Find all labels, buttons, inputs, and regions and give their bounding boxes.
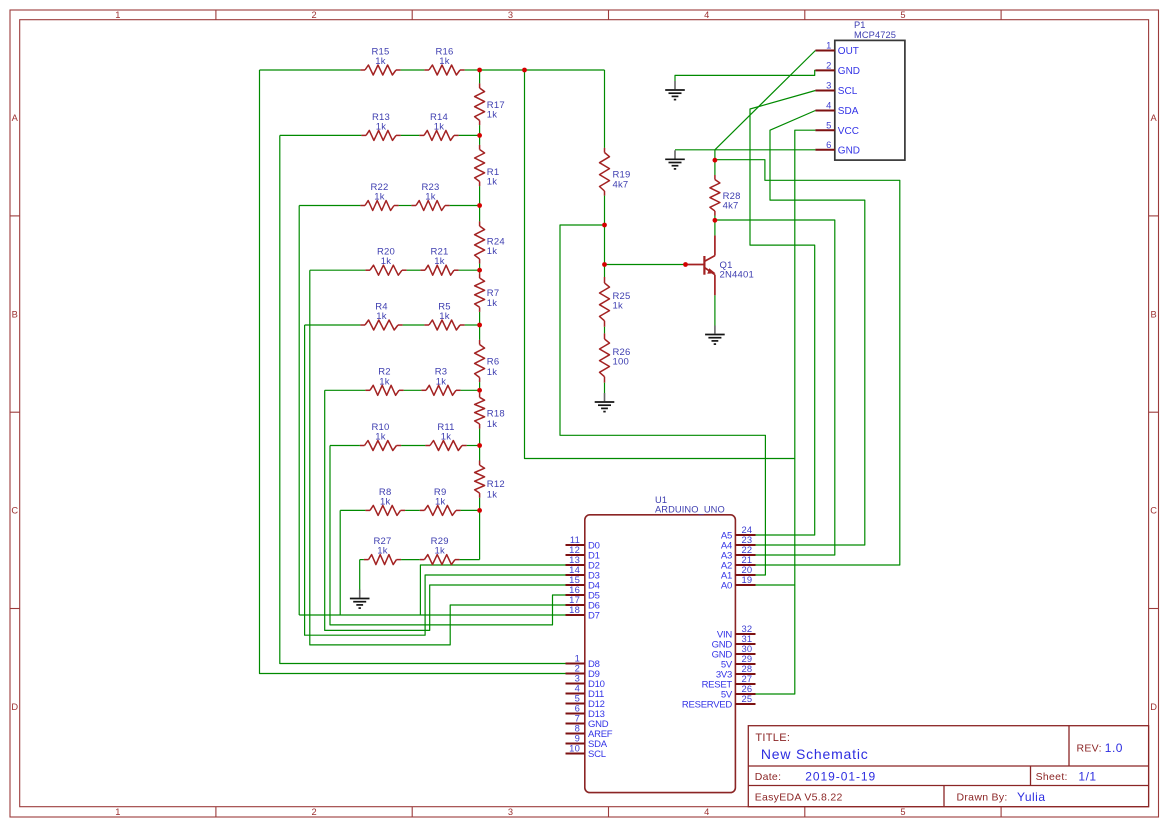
wire node to base node: [604, 225, 606, 265]
svg-text:3: 3: [826, 80, 831, 91]
junction node row 5: [477, 323, 482, 328]
resistor R14 1k: [419, 112, 458, 141]
svg-text:1k: 1k: [380, 496, 390, 507]
svg-text:10: 10: [569, 743, 580, 754]
wire row 9 left: [360, 559, 364, 561]
U1 pin 10 SCL: [566, 743, 606, 760]
svg-text:VCC: VCC: [838, 126, 859, 137]
wire corner to U1 D2: [420, 565, 565, 615]
svg-text:MCP4725: MCP4725: [854, 30, 896, 40]
svg-text:1k: 1k: [487, 419, 497, 430]
svg-text:EasyEDA V5.8.22: EasyEDA V5.8.22: [755, 792, 843, 804]
U1 pin 28 3V3: [716, 663, 756, 680]
wire row 6 left: [325, 389, 366, 391]
svg-text:RESERVED: RESERVED: [682, 700, 732, 711]
svg-text:Yulia: Yulia: [1017, 790, 1046, 804]
resistor R28 4k7: [710, 175, 741, 216]
wire row 6 to D4: [325, 390, 566, 630]
svg-text:2019-01-19: 2019-01-19: [805, 769, 876, 783]
svg-text:D: D: [1150, 702, 1157, 712]
P1 pin 4 SDA: [815, 100, 858, 118]
wire row 2 to D8: [280, 135, 566, 663]
resistor R17 1k: [475, 83, 505, 125]
U1 pin 19 A0: [721, 574, 756, 591]
svg-text:A0: A0: [721, 581, 732, 592]
svg-text:4: 4: [704, 10, 709, 20]
svg-text:New Schematic: New Schematic: [761, 746, 869, 762]
wire ladder column segment: [479, 446, 481, 461]
junction node row 3: [477, 203, 482, 208]
wire ladder column segment: [479, 498, 481, 511]
U1 pin 16 D5: [566, 584, 600, 601]
svg-text:4k7: 4k7: [613, 179, 629, 190]
junction node row 7: [477, 443, 482, 448]
svg-text:A: A: [1150, 113, 1157, 123]
U1 pin 30 GND: [712, 643, 756, 660]
resistor R11 1k: [425, 422, 466, 451]
U1 pin 8 AREF: [566, 723, 613, 740]
svg-text:1k: 1k: [374, 192, 384, 203]
wire ladder column segment: [479, 186, 481, 205]
U1 pin 29 5V: [721, 653, 756, 670]
svg-text:1k: 1k: [487, 298, 497, 309]
ground at Q1 emitter: [705, 326, 725, 345]
wire row 4 middle: [407, 269, 421, 271]
wire P1 SDA to A4: [756, 111, 865, 546]
wire row 9 right: [460, 559, 480, 561]
wire row 1 middle: [401, 69, 425, 71]
wire R25-R26: [604, 327, 606, 334]
wire row 2 left: [280, 134, 362, 136]
resistor R21 1k: [420, 247, 458, 276]
U1 pin 7 GND: [566, 713, 609, 730]
U1 pin 22 A3: [721, 544, 756, 561]
resistor R24 1k: [475, 221, 505, 263]
wire row 3 middle: [399, 205, 412, 207]
svg-text:GND: GND: [838, 146, 860, 157]
wire ladder column segment: [479, 390, 481, 392]
svg-text:1k: 1k: [381, 256, 391, 267]
wire row 8 to D7: [339, 510, 341, 615]
wire R27 to ground: [359, 560, 361, 590]
svg-text:ARDUINO_UNO: ARDUINO_UNO: [655, 505, 725, 515]
resistor R8 1k: [365, 487, 405, 516]
U1 pin 11 D0: [566, 534, 600, 551]
wire row 5 right: [465, 324, 480, 326]
svg-text:100: 100: [613, 357, 629, 368]
resistor R6 1k: [475, 340, 500, 382]
svg-text:5: 5: [826, 119, 831, 130]
svg-text:1k: 1k: [436, 376, 446, 387]
svg-text:R12: R12: [487, 479, 505, 490]
U1 pin 2 D9: [566, 663, 600, 680]
svg-text:1k: 1k: [435, 496, 445, 507]
junction node row 2: [477, 133, 482, 138]
resistor R2 1k: [365, 367, 403, 396]
svg-text:1: 1: [115, 10, 120, 20]
wire ladder column to R29 row: [479, 510, 481, 559]
svg-text:GND: GND: [838, 66, 860, 77]
wire R26 to ground: [604, 383, 606, 393]
wire A1 net: [560, 225, 765, 575]
svg-text:C: C: [11, 506, 18, 516]
svg-text:U1: U1: [655, 495, 667, 505]
wire ladder column segment: [479, 325, 481, 340]
wire OUT to R28 node: [714, 150, 716, 160]
svg-text:1k: 1k: [376, 121, 386, 132]
wire row 7 left: [330, 445, 360, 447]
svg-text:19: 19: [742, 574, 753, 585]
wire P1 VCC rail: [756, 130, 816, 694]
U1 pin 18 D7: [566, 604, 600, 621]
U1 pin 4 D11: [566, 683, 604, 700]
svg-text:R6: R6: [487, 357, 500, 368]
wire row 6 middle: [404, 389, 422, 391]
ground at P1 GND6: [665, 150, 685, 169]
wire row 2 right: [459, 134, 480, 136]
wire row 8 left: [340, 509, 365, 511]
wire row 8 right: [461, 509, 480, 511]
svg-text:B: B: [1150, 309, 1156, 319]
svg-text:1/1: 1/1: [1078, 769, 1096, 783]
resistor R15 1k: [360, 46, 400, 75]
U1 pin 21 A2: [721, 554, 756, 571]
P1 pin 5 VCC: [815, 119, 859, 137]
resistor R26 100: [600, 333, 631, 382]
svg-text:1.0: 1.0: [1105, 741, 1123, 755]
wire ladder column segment: [479, 125, 481, 135]
U1 pin 3 D10: [566, 673, 605, 690]
resistor R3 1k: [421, 367, 460, 396]
svg-text:Date:: Date:: [755, 771, 782, 783]
junction node row 1: [477, 68, 482, 73]
resistor R9 1k: [420, 487, 461, 516]
wire ladder column segment: [479, 382, 481, 390]
resistor R19 4k7: [600, 148, 631, 196]
U1 pin 23 A4: [721, 534, 756, 551]
wire row 3 left: [299, 205, 360, 207]
wire R28 node to A2: [715, 160, 900, 565]
svg-text:1k: 1k: [487, 367, 497, 378]
wire row 7 to D5: [330, 446, 566, 625]
svg-text:R18: R18: [487, 409, 505, 420]
svg-text:1k: 1k: [434, 121, 444, 132]
svg-text:4: 4: [826, 100, 831, 111]
resistor R12 1k: [475, 461, 505, 501]
resistor R13 1k: [361, 112, 400, 141]
wire R28 bottom: [714, 216, 716, 221]
svg-text:D: D: [11, 702, 18, 712]
U1 pin 5 D12: [566, 693, 605, 710]
resistor R22 1k: [360, 182, 398, 211]
junction node row 6: [477, 388, 482, 393]
svg-text:25: 25: [742, 693, 753, 704]
resistor R16 1k: [424, 46, 464, 75]
U1 pin 1 D8: [566, 653, 600, 670]
svg-text:TITLE:: TITLE:: [755, 732, 790, 744]
wire row 1 left: [260, 69, 361, 71]
U1 pin 6 D13: [566, 703, 605, 720]
U1 pin 14 D3: [566, 564, 600, 581]
svg-text:3: 3: [508, 807, 513, 817]
wire row 8 middle: [405, 509, 420, 511]
wire ladder column segment: [479, 206, 481, 222]
svg-text:REV:: REV:: [1077, 743, 1102, 755]
wire ladder column segment: [479, 429, 481, 446]
svg-text:1k: 1k: [376, 311, 386, 322]
wire 5V riser: [525, 70, 795, 459]
svg-text:1k: 1k: [434, 546, 444, 557]
P1 pin 1 OUT: [815, 40, 859, 58]
wire ladder column segment: [479, 70, 481, 83]
wire base node to Q1: [605, 264, 686, 266]
title block frame: [748, 726, 1148, 807]
wire top row to R19 column: [480, 69, 605, 71]
svg-text:2: 2: [312, 807, 317, 817]
U1 pin 12 D1: [566, 544, 600, 561]
wire row 1 right: [465, 69, 480, 71]
resistor R18 1k: [475, 393, 505, 430]
svg-text:SDA: SDA: [838, 106, 859, 117]
U1 pin 9 SDA: [566, 733, 608, 750]
P1 pin 2 GND: [815, 60, 860, 78]
svg-text:4: 4: [704, 807, 709, 817]
wire row 6 right: [461, 389, 480, 391]
resistor R20 1k: [365, 247, 406, 276]
svg-text:1k: 1k: [434, 256, 444, 267]
wire row 1 to D9: [260, 70, 566, 674]
wire to U1 D7: [299, 614, 565, 616]
svg-text:2: 2: [312, 10, 317, 20]
connector P1 box: [835, 40, 905, 160]
svg-text:1k: 1k: [379, 376, 389, 387]
junction node Q1 base: [683, 262, 688, 267]
resistor R5 1k: [424, 301, 464, 330]
svg-text:A: A: [12, 113, 19, 123]
wire row 9 middle: [401, 559, 420, 561]
junction node row 8: [477, 508, 482, 513]
svg-text:1k: 1k: [487, 177, 497, 188]
resistor R7 1k: [475, 273, 500, 312]
wire row 4 right: [459, 269, 480, 271]
svg-text:1k: 1k: [613, 301, 623, 312]
svg-text:1k: 1k: [441, 432, 451, 443]
U1 pin 32 VIN: [717, 623, 756, 640]
ground at P1 GND2: [665, 81, 685, 100]
junction node row 4: [477, 268, 482, 273]
svg-text:5: 5: [900, 10, 905, 20]
junction node R19/A1: [602, 223, 607, 228]
svg-text:1: 1: [826, 40, 831, 51]
wire ladder column segment: [479, 135, 481, 145]
svg-text:SCL: SCL: [588, 749, 606, 760]
svg-text:D7: D7: [588, 611, 600, 622]
resistor R25 1k: [600, 277, 631, 327]
svg-text:C: C: [1150, 506, 1157, 516]
wire Q1 emitter to ground: [714, 295, 716, 325]
wire row 3 to D2: [298, 206, 300, 616]
wire row 7 middle: [401, 445, 425, 447]
wire R28 top lead: [714, 160, 716, 175]
svg-text:OUT: OUT: [838, 46, 859, 57]
junction node top ladder: [522, 68, 527, 73]
svg-text:1k: 1k: [375, 56, 385, 67]
wire collector to A3: [715, 220, 835, 555]
P1 pin 6 GND: [815, 139, 860, 157]
svg-text:2: 2: [826, 60, 831, 71]
wire ladder column segment: [479, 270, 481, 273]
U1 pin 24 A5: [721, 524, 756, 541]
wire P1 OUT diagonal: [715, 51, 816, 150]
wire A0 to 5V rail: [756, 584, 795, 586]
P1 pin 3 SCL: [815, 80, 857, 98]
resistor R23 1k: [411, 182, 449, 211]
U1 pin 20 A1: [721, 564, 756, 581]
svg-text:3: 3: [508, 10, 513, 20]
resistor R10 1k: [360, 422, 401, 451]
ground at R27: [350, 590, 370, 609]
junction node R28 top: [713, 158, 718, 163]
mcu U1 box: [585, 515, 736, 793]
resistor R29 1k: [420, 536, 460, 565]
junction node collector: [713, 218, 718, 223]
wire row 5 left: [305, 324, 361, 326]
svg-text:1k: 1k: [375, 432, 385, 443]
svg-text:1k: 1k: [425, 192, 435, 203]
svg-text:6: 6: [826, 139, 831, 150]
svg-text:1k: 1k: [439, 311, 449, 322]
svg-text:1k: 1k: [439, 56, 449, 67]
svg-text:SCL: SCL: [838, 86, 858, 97]
svg-text:18: 18: [569, 604, 580, 615]
wire ladder column segment: [479, 312, 481, 325]
wire row 7 right: [467, 445, 480, 447]
svg-text:1: 1: [115, 807, 120, 817]
svg-text:1k: 1k: [487, 110, 497, 121]
resistor R1 1k: [475, 145, 500, 188]
svg-text:1k: 1k: [377, 546, 387, 557]
wire row 4 to D6: [310, 270, 566, 645]
U1 pin 27 RESET: [702, 673, 756, 690]
wire row 2 middle: [401, 134, 420, 136]
svg-text:2N4401: 2N4401: [720, 269, 754, 280]
svg-text:Sheet:: Sheet:: [1036, 771, 1068, 783]
wire row 4 left: [310, 269, 366, 271]
U1 pin 26 5V: [721, 683, 756, 700]
svg-text:4k7: 4k7: [723, 200, 739, 211]
wire R25 top: [604, 265, 606, 278]
U1 pin 17 D6: [566, 594, 600, 611]
wire Q1 collector: [714, 220, 716, 235]
U1 pin 25 RESERVED: [682, 693, 756, 710]
U1 pin 13 D2: [566, 554, 600, 571]
wire P1 GND6: [675, 149, 815, 151]
wire R19 top: [604, 70, 606, 148]
wire P1 SCL to A5: [750, 91, 815, 536]
svg-text:P1: P1: [854, 20, 866, 30]
wire row 5 to D3: [305, 325, 566, 635]
svg-text:1k: 1k: [487, 490, 497, 501]
wire row 5 middle: [403, 324, 425, 326]
ground at R26: [595, 393, 615, 412]
junction node base: [602, 262, 607, 267]
resistor R4 1k: [360, 301, 402, 330]
wire ladder column segment: [479, 264, 481, 271]
wire row 3 right: [450, 205, 480, 207]
svg-text:5: 5: [900, 807, 905, 817]
svg-text:B: B: [12, 309, 18, 319]
svg-text:1k: 1k: [487, 246, 497, 257]
resistor R27 1k: [364, 536, 401, 565]
svg-text:Drawn By:: Drawn By:: [957, 792, 1008, 804]
wire R19 bottom to node: [604, 196, 606, 225]
U1 pin 15 D4: [566, 574, 600, 591]
transistor Q1 2N4401: [686, 235, 754, 295]
U1 pin 31 GND: [712, 633, 756, 650]
wire P1 GND2: [675, 70, 815, 81]
